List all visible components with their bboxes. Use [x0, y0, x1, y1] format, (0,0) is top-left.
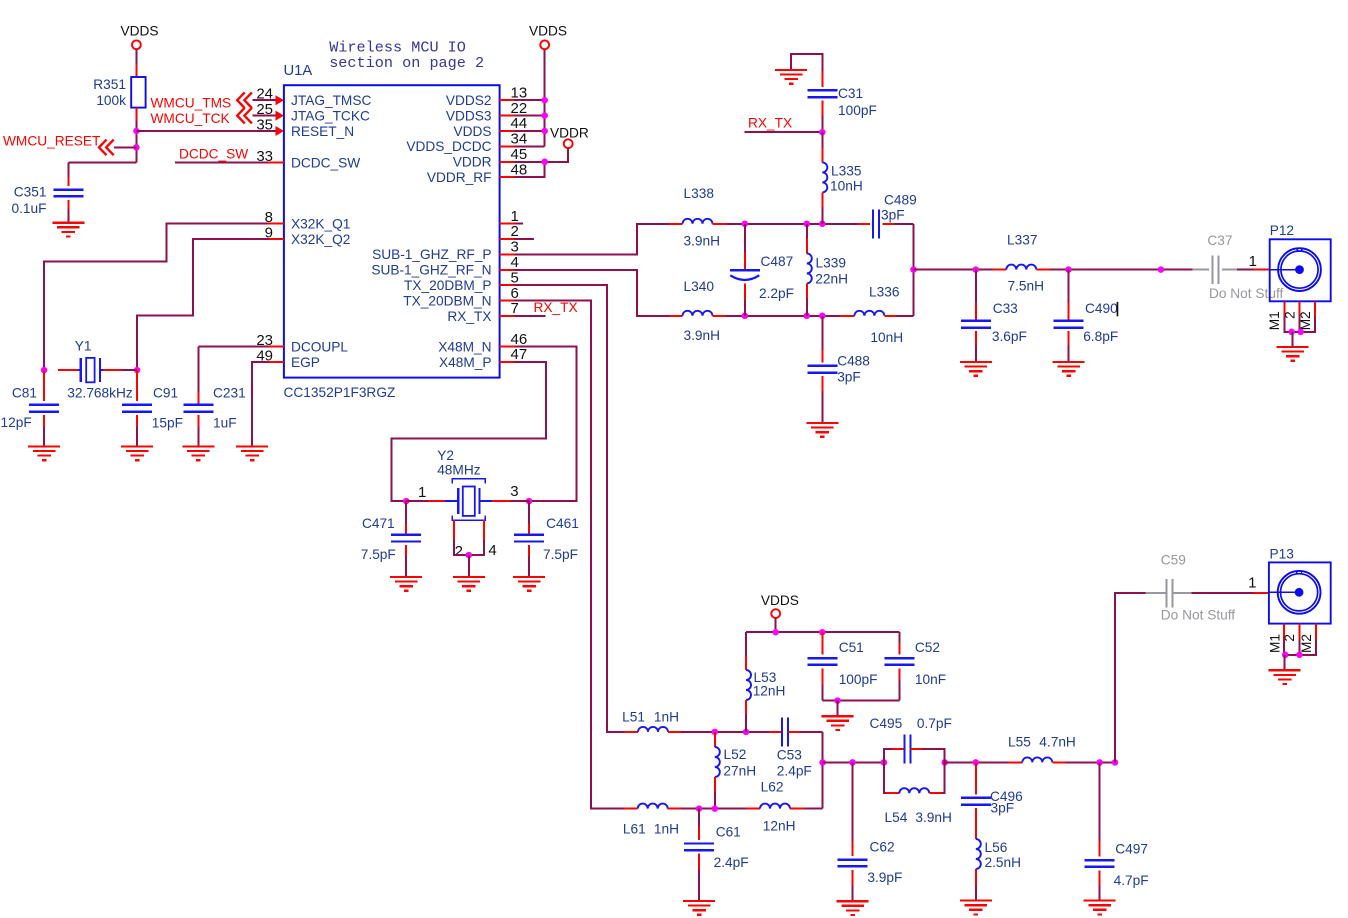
junction node Y1 pin1 — [41, 367, 48, 374]
wire ground corner above C31 — [791, 54, 822, 71]
junction dots rail1 — [712, 729, 719, 736]
svg-text:2.5nH: 2.5nH — [985, 855, 1022, 870]
svg-text:1nH: 1nH — [654, 709, 679, 724]
wire TX_20DBM_P pin 5 to L51 — [515, 285, 624, 732]
wire SUB-1_GHZ_RF_P pin 3 to L338 — [515, 224, 669, 255]
ground below C497 — [1084, 899, 1116, 901]
svg-text:3: 3 — [510, 483, 518, 500]
svg-text:C495: C495 — [870, 716, 903, 731]
svg-text:P13: P13 — [1270, 546, 1295, 561]
resistor R351 100k — [131, 77, 145, 108]
svg-text:VDDS3: VDDS3 — [446, 108, 492, 123]
svg-text:22nH: 22nH — [815, 271, 848, 286]
U1A left pin stubs — [269, 162, 284, 164]
svg-text:VDDS: VDDS — [453, 124, 491, 139]
svg-text:3pF: 3pF — [837, 370, 861, 385]
svg-text:TX_20DBM_N: TX_20DBM_N — [403, 293, 491, 308]
inductor L336 10nH — [854, 311, 884, 316]
wire C51 C52 bottom to ground — [822, 700, 899, 702]
inductor L51 1nH — [638, 727, 668, 732]
svg-text:RX_TX: RX_TX — [447, 309, 491, 324]
svg-text:15pF: 15pF — [152, 415, 183, 430]
svg-text:VDDS: VDDS — [529, 23, 567, 38]
svg-text:3.9pF: 3.9pF — [867, 870, 902, 885]
inductor L61 1nH — [638, 804, 668, 809]
svg-text:X48M_P: X48M_P — [439, 355, 492, 370]
svg-text:Y2: Y2 — [437, 448, 454, 463]
junction node Y2 pin3 — [526, 498, 533, 505]
capacitor C351 0.1uF — [53, 188, 83, 190]
inductor L55 4.7nH — [1022, 757, 1052, 762]
svg-text:section on page 2: section on page 2 — [329, 54, 484, 72]
ground below C488 — [806, 422, 838, 424]
svg-text:4.7nH: 4.7nH — [1039, 734, 1076, 749]
junction dots P13 shield — [1282, 652, 1289, 659]
capacitor C487 2.2pF — [744, 224, 746, 253]
svg-text:C53: C53 — [777, 748, 802, 763]
svg-text:EGP: EGP — [291, 355, 320, 370]
svg-text:SUB-1_GHZ_RF_P: SUB-1_GHZ_RF_P — [372, 247, 491, 262]
svg-text:12nH: 12nH — [763, 818, 796, 833]
svg-text:M2: M2 — [1298, 311, 1313, 330]
wire X48M_P pin 47 to Y2 pin 1 — [391, 362, 546, 501]
svg-text:R351: R351 — [93, 77, 126, 92]
svg-text:100k: 100k — [96, 93, 126, 108]
junction dots VDDS rail — [772, 629, 779, 636]
inductor L56 2.5nH — [975, 808, 977, 839]
svg-text:2: 2 — [1282, 634, 1297, 642]
svg-text:48: 48 — [511, 161, 528, 178]
wire RX_TX stub pin 7 — [515, 315, 546, 317]
svg-text:4: 4 — [488, 542, 496, 559]
ground below C91 — [121, 445, 153, 447]
U1A right pin stubs — [500, 99, 515, 101]
svg-text:2.2pF: 2.2pF — [759, 286, 794, 301]
svg-text:M2: M2 — [1299, 634, 1314, 653]
ground below C51 — [822, 715, 854, 717]
svg-text:Do Not Stuff: Do Not Stuff — [1209, 286, 1284, 301]
capacitor C31 100pF — [821, 71, 823, 87]
junction dots rail2 — [696, 805, 703, 812]
svg-text:3pF: 3pF — [991, 801, 1015, 816]
ground below Y2 — [453, 576, 485, 578]
svg-text:27nH: 27nH — [723, 764, 756, 779]
svg-text:3.9nH: 3.9nH — [684, 233, 721, 248]
wire L61 to L62 — [668, 808, 681, 810]
wire R351 to node RESET — [135, 108, 137, 121]
svg-text:L61: L61 — [623, 821, 646, 836]
svg-text:C62: C62 — [870, 839, 895, 854]
svg-text:4.7pF: 4.7pF — [1114, 873, 1149, 888]
svg-text:DCDC_SW: DCDC_SW — [179, 147, 248, 162]
svg-text:2: 2 — [455, 543, 463, 560]
svg-text:VDDS2: VDDS2 — [446, 93, 492, 108]
wire C489/L336 to output node — [913, 224, 915, 316]
ground below L56 — [960, 899, 992, 901]
svg-text:WMCU_TCK: WMCU_TCK — [151, 111, 230, 126]
svg-text:10nH: 10nH — [830, 178, 863, 193]
svg-text:47: 47 — [511, 346, 528, 363]
svg-text:12pF: 12pF — [1, 415, 32, 430]
ground below EGP — [236, 445, 268, 447]
svg-text:U1A: U1A — [284, 63, 313, 79]
junction node Y2 case — [466, 552, 473, 559]
svg-text:C231: C231 — [213, 385, 246, 400]
wire stub pin 2 — [515, 238, 534, 240]
junction dots VDDS bus — [541, 97, 548, 104]
capacitor C496 3pF — [975, 762, 977, 794]
capacitor C59 Do Not Stuff — [1146, 592, 1167, 594]
svg-text:32.768kHz: 32.768kHz — [67, 385, 133, 400]
svg-text:1: 1 — [1249, 253, 1257, 270]
svg-text:RX_TX: RX_TX — [534, 300, 578, 315]
svg-text:VDDR: VDDR — [453, 155, 492, 170]
svg-text:C37: C37 — [1207, 233, 1232, 248]
inductor L53 12nH — [745, 632, 747, 656]
svg-text:0.7pF: 0.7pF — [917, 716, 952, 731]
svg-text:33: 33 — [256, 148, 273, 165]
junction node Y2 pin1 — [403, 498, 410, 505]
ground below C61 — [683, 900, 715, 902]
ground below C490 — [1053, 361, 1085, 363]
wire X32K_Q1 pin 8 to Y1 — [44, 224, 269, 371]
wire WMCU_RESET to junction — [114, 146, 136, 148]
wire up to C59 and P13 — [1115, 593, 1146, 762]
wire L338 to C489 — [713, 223, 727, 225]
crystal Y1 32.768kHz — [58, 369, 78, 371]
svg-text:1nH: 1nH — [654, 821, 679, 836]
svg-text:RESET_N: RESET_N — [291, 124, 354, 139]
junction dots output rail — [973, 266, 980, 273]
svg-text:0.1uF: 0.1uF — [11, 201, 46, 216]
svg-text:X32K_Q1: X32K_Q1 — [291, 216, 350, 231]
svg-text:C471: C471 — [362, 516, 395, 531]
wire output rail to P12 — [910, 266, 917, 273]
svg-text:L337: L337 — [1007, 233, 1037, 248]
junction dots bottom rail — [742, 313, 749, 320]
svg-text:VDDS: VDDS — [120, 24, 158, 39]
svg-text:DCDC_SW: DCDC_SW — [291, 155, 360, 170]
svg-text:C489: C489 — [884, 193, 917, 208]
svg-text:Y1: Y1 — [75, 339, 92, 354]
wire C351 to ground — [67, 200, 69, 210]
svg-text:L52: L52 — [724, 747, 747, 762]
connector P12 — [1270, 239, 1331, 301]
crystal Y2 48MHz — [406, 500, 428, 502]
capacitor C61 2.4pF — [698, 809, 700, 827]
capacitor C495 0.7pF parallel inductor L54 3.9nH — [881, 759, 888, 766]
capacitor C37 Do Not Stuff — [1193, 269, 1210, 271]
svg-text:CC1352P1F3RGZ: CC1352P1F3RGZ — [284, 385, 396, 400]
inductor L340 3.9nH — [683, 311, 713, 316]
svg-text:DCOUPL: DCOUPL — [291, 339, 348, 354]
svg-text:L62: L62 — [761, 779, 784, 794]
svg-text:RX_TX: RX_TX — [748, 116, 792, 131]
svg-text:VDDR_RF: VDDR_RF — [427, 170, 492, 185]
inductor L338 3.9nH — [683, 219, 713, 224]
svg-text:100pF: 100pF — [838, 103, 877, 118]
svg-text:M1: M1 — [1267, 311, 1282, 330]
svg-text:2: 2 — [1283, 311, 1298, 319]
wire X48M_N pin 46 to Y2 pin 3 — [515, 347, 577, 502]
wire TX_20DBM_N pin 6 to L61 — [515, 301, 624, 809]
wire P12 shield to ground — [1292, 332, 1294, 347]
svg-text:L336: L336 — [869, 284, 900, 299]
svg-text:TX_20DBM_P: TX_20DBM_P — [404, 278, 492, 293]
wire VDDS bus to pins 13 22 44 34 — [544, 49, 546, 146]
capacitor C490 6.8pF — [1068, 270, 1070, 303]
svg-text:Do Not Stuff: Do Not Stuff — [1161, 607, 1236, 622]
svg-text:6.8pF: 6.8pF — [1083, 329, 1118, 344]
wire stub pin 1 — [515, 223, 523, 225]
inductor L335 10nH — [821, 132, 823, 148]
capacitor C488 3pF — [821, 316, 823, 350]
capacitor C489 3pF — [872, 209, 874, 238]
svg-text:12nH: 12nH — [753, 683, 786, 698]
wire rail3 to L55 — [945, 761, 1009, 763]
ground below C351 — [52, 222, 84, 224]
svg-text:C488: C488 — [837, 354, 870, 369]
capacitor C461 7.5pF — [528, 501, 530, 524]
svg-text:C487: C487 — [761, 254, 794, 269]
P12 shield pins M1 2 M2 — [1283, 301, 1285, 316]
svg-text:X48M_N: X48M_N — [438, 339, 491, 354]
svg-text:C59: C59 — [1161, 553, 1186, 568]
junction dot VDDR — [541, 159, 548, 166]
wire X32K_Q2 pin 9 to Y1 — [137, 239, 269, 370]
svg-text:C91: C91 — [153, 385, 178, 400]
svg-text:2.4pF: 2.4pF — [777, 764, 812, 779]
svg-text:P12: P12 — [1270, 223, 1294, 238]
svg-text:L338: L338 — [684, 186, 715, 201]
capacitor C33 3.6pF — [975, 270, 977, 304]
svg-text:JTAG_TCKC: JTAG_TCKC — [291, 108, 370, 123]
svg-text:C31: C31 — [838, 86, 863, 101]
svg-text:L335: L335 — [831, 164, 862, 179]
capacitor C53 2.4pF — [781, 717, 783, 746]
inductor L339 22nH — [806, 224, 808, 238]
svg-text:C51: C51 — [839, 640, 864, 655]
svg-text:X32K_Q2: X32K_Q2 — [291, 232, 350, 247]
wire node to C351 — [68, 162, 136, 164]
wire SUB-1_GHZ_RF_N pin 4 to L340 — [515, 270, 669, 316]
svg-text:L54: L54 — [885, 810, 908, 825]
junction node Y1 pin2 — [134, 367, 141, 374]
inductor L337 7.5nH — [1006, 265, 1036, 270]
svg-text:C351: C351 — [14, 185, 47, 200]
wire EGP pin 49 to ground — [252, 362, 269, 446]
junction node RESET_N — [133, 128, 140, 135]
svg-text:1uF: 1uF — [213, 415, 237, 430]
svg-text:VDDR: VDDR — [550, 125, 589, 140]
wire DCOUPL pin 23 to C231 — [198, 346, 268, 348]
svg-text:L339: L339 — [816, 256, 846, 271]
junction node RX_TX — [819, 129, 826, 136]
ground below P12 — [1277, 346, 1309, 348]
svg-text:7.5pF: 7.5pF — [361, 547, 396, 562]
svg-text:C461: C461 — [546, 516, 579, 531]
svg-text:M1: M1 — [1267, 634, 1282, 653]
capacitor C62 3.9pF — [852, 762, 854, 841]
wire Y2 case pins 2 4 to ground — [453, 520, 455, 540]
junction node mid rail3 — [819, 759, 826, 766]
svg-text:3.6pF: 3.6pF — [992, 329, 1027, 344]
svg-text:WMCU_TMS: WMCU_TMS — [151, 95, 232, 110]
capacitor C52 10nF — [898, 632, 900, 643]
ground below C231 — [182, 445, 214, 447]
svg-text:7.5pF: 7.5pF — [543, 547, 578, 562]
wire rail3 to C495 loop — [823, 761, 884, 763]
svg-text:C61: C61 — [716, 825, 741, 840]
svg-text:VDDS_DCDC: VDDS_DCDC — [406, 139, 491, 154]
svg-text:L55: L55 — [1008, 734, 1031, 749]
wire VDDS to R351 — [135, 49, 137, 64]
capacitor C91 15pF — [136, 370, 138, 401]
capacitor C471 7.5pF — [405, 501, 407, 524]
svg-text:C52: C52 — [915, 640, 940, 655]
ground above C31 — [775, 69, 807, 71]
wire pin 1 into P12 — [1253, 269, 1269, 271]
ground below C471 — [390, 576, 422, 578]
svg-text:7.5nH: 7.5nH — [1008, 279, 1045, 294]
connector P13 — [1269, 562, 1331, 623]
ground below C81 — [28, 445, 60, 447]
P13 shield pins M1 2 M2 — [1283, 624, 1285, 640]
svg-text:1: 1 — [418, 484, 426, 501]
junction dots P12 shield — [1288, 329, 1295, 336]
wire P13 shield to ground — [1284, 655, 1286, 671]
svg-text:C497: C497 — [1115, 842, 1148, 857]
wire VDDR to pins 45 48 — [515, 148, 569, 162]
svg-text:35: 35 — [256, 117, 273, 134]
junction dots top rail — [742, 221, 749, 228]
svg-text:48MHz: 48MHz — [437, 463, 481, 478]
svg-text:10nF: 10nF — [915, 672, 946, 687]
junction dots rail3 right — [1096, 759, 1103, 766]
wire pin 1 into P13 — [1254, 592, 1269, 594]
svg-text:L51: L51 — [622, 709, 645, 724]
svg-text:WMCU_RESET: WMCU_RESET — [3, 134, 101, 149]
capacitor C81 12pF — [43, 370, 45, 401]
svg-text:JTAG_TMSC: JTAG_TMSC — [291, 93, 371, 108]
svg-text:7: 7 — [511, 300, 519, 317]
op-amp U1A CC1352P1F3RGZ (MCU symbol) — [284, 85, 500, 377]
wire WMCU_TCK to U1A pin 25 — [252, 115, 276, 117]
junction dot ground tap — [834, 697, 841, 704]
svg-text:2.4pF: 2.4pF — [714, 855, 749, 870]
wire WMCU_TMS to U1A pin 24 — [252, 99, 276, 101]
capacitor C51 100pF — [821, 632, 823, 654]
svg-text:100pF: 100pF — [839, 672, 878, 687]
text cursor after C490 — [1117, 302, 1119, 316]
wire C53 corner down to node — [822, 732, 824, 809]
wire bottom rail L340 to L336 — [713, 315, 727, 317]
svg-text:1: 1 — [1248, 575, 1256, 592]
svg-text:3.9nH: 3.9nH — [915, 810, 952, 825]
wire RESET_N to U1A pin 35 — [136, 130, 275, 132]
svg-text:L56: L56 — [985, 840, 1008, 855]
inductor L62 12nH — [760, 804, 790, 809]
ground below P13 — [1269, 669, 1301, 671]
svg-text:C490: C490 — [1085, 301, 1118, 316]
svg-text:C33: C33 — [993, 301, 1018, 316]
svg-text:3pF: 3pF — [881, 208, 905, 223]
ground below C33 — [960, 361, 992, 363]
ground below C461 — [513, 576, 545, 578]
capacitor C497 4.7pF — [1099, 762, 1101, 840]
svg-text:SUB-1_GHZ_RF_N: SUB-1_GHZ_RF_N — [371, 263, 491, 278]
svg-text:3.9nH: 3.9nH — [684, 328, 721, 343]
inductor L52 27nH — [714, 732, 716, 747]
wire RX_TX to C31 node — [745, 131, 823, 133]
svg-text:VDDS: VDDS — [761, 593, 799, 608]
svg-text:10nH: 10nH — [870, 330, 903, 345]
wire L51 to C53 — [668, 731, 681, 733]
svg-text:C81: C81 — [12, 385, 37, 400]
ground below C62 — [837, 900, 869, 902]
wire VDDS rail to C51 C52 — [775, 618, 777, 632]
svg-text:L340: L340 — [684, 279, 715, 294]
capacitor C231 1uF — [197, 392, 199, 405]
